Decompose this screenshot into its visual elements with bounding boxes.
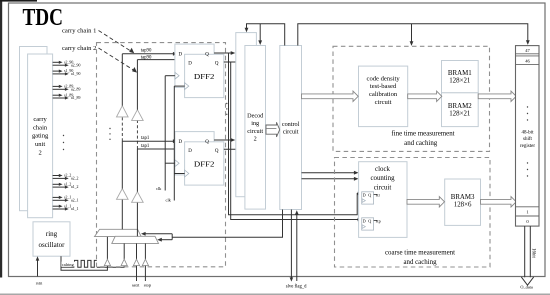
svg-text:D: D bbox=[179, 53, 183, 58]
BRAM1 bbox=[442, 61, 479, 93]
svg-text:satrt: satrt bbox=[132, 282, 140, 287]
svg-text:unit: unit bbox=[35, 141, 45, 148]
svg-text:test-based: test-based bbox=[370, 83, 397, 90]
svg-text:Q: Q bbox=[368, 192, 371, 197]
svg-text:stop: stop bbox=[144, 282, 152, 287]
svg-text:counting: counting bbox=[370, 175, 395, 182]
svg-text:ring: ring bbox=[46, 230, 58, 238]
wire U2 back Q to Decoding bbox=[214, 139, 231, 141]
clk pin U1 front bbox=[185, 83, 189, 90]
svg-text:a1_1: a1_1 bbox=[71, 207, 79, 211]
carry chain gating unit 2 front box bbox=[28, 54, 53, 218]
signal a2_1 bbox=[53, 199, 66, 201]
svg-text:clk: clk bbox=[166, 197, 172, 202]
wire tap1 chain2 to DFF2 bbox=[137, 148, 183, 150]
signal a2_89 bbox=[53, 88, 66, 90]
DFF str bbox=[362, 192, 374, 204]
svg-text:D: D bbox=[188, 61, 192, 66]
svg-text:circuit: circuit bbox=[283, 129, 299, 136]
signal s1_1 bbox=[53, 205, 60, 207]
dots chain repetition bbox=[109, 128, 110, 129]
svg-text:TDC: TDC bbox=[23, 5, 64, 31]
48-bit shift register bbox=[516, 46, 540, 227]
DFF2 U2 front box bbox=[185, 142, 224, 185]
svg-text:circuit: circuit bbox=[247, 128, 263, 135]
BRAM3 bbox=[445, 179, 481, 225]
svg-text:chain: chain bbox=[33, 124, 48, 131]
bus arrow control to code density bbox=[302, 91, 359, 101]
code density test-based calibration circuit bbox=[359, 66, 408, 127]
svg-text:tap1: tap1 bbox=[141, 136, 150, 141]
dashed box fine time measurement and caching bbox=[333, 46, 490, 151]
svg-text:and caching: and caching bbox=[404, 140, 438, 147]
mux M2 (front trapezoid) bbox=[112, 236, 159, 243]
svg-text:Q: Q bbox=[368, 218, 371, 223]
svg-text:ing: ing bbox=[251, 120, 259, 127]
image bottom edge line bbox=[0, 293, 550, 295]
svg-text:a1_89: a1_89 bbox=[71, 96, 81, 100]
svg-text:BRAM3: BRAM3 bbox=[451, 194, 475, 201]
buffer B2b on chain 2 bbox=[132, 192, 144, 203]
clk pin U2 back bbox=[175, 160, 179, 167]
clk pin U2 front bbox=[185, 170, 189, 177]
Decoding circuit 2 back box bbox=[236, 33, 257, 197]
signal a1_1 bbox=[53, 208, 66, 210]
dots between signal groups bbox=[63, 135, 64, 136]
DFF2 U1 back box bbox=[175, 44, 214, 87]
mux input cal 1 bbox=[106, 237, 108, 259]
svg-text:a2_2: a2_2 bbox=[71, 177, 79, 181]
wire control to clock counting 2 bbox=[302, 178, 355, 180]
image left edge band bbox=[0, 0, 2, 278]
svg-text:Decod: Decod bbox=[247, 112, 264, 119]
svg-text:carry chain 2: carry chain 2 bbox=[62, 45, 96, 52]
dashed box carry chain 2 bbox=[97, 43, 226, 267]
svg-text:Q: Q bbox=[215, 61, 219, 66]
svg-text:a2_89: a2_89 bbox=[71, 87, 81, 91]
Decoding circuit 2 front box bbox=[245, 46, 266, 210]
callout arrow carry chain 1 bbox=[99, 31, 132, 52]
signal s2_89 bbox=[53, 85, 60, 87]
svg-text:and caching: and caching bbox=[403, 259, 437, 266]
carry chain gating unit 2 back box bbox=[20, 47, 48, 211]
signal a2_2 bbox=[53, 177, 66, 179]
clk net 2 bbox=[174, 85, 184, 87]
svg-text:clk: clk bbox=[156, 186, 162, 191]
svg-text:BRAM1: BRAM1 bbox=[448, 70, 472, 77]
clk pin U1 back bbox=[175, 72, 179, 79]
signal s2_1 bbox=[53, 196, 60, 198]
svg-text:D: D bbox=[188, 149, 192, 154]
output bus 16bit bbox=[524, 226, 526, 277]
svg-text:D: D bbox=[363, 218, 366, 223]
svg-text:DFF2: DFF2 bbox=[194, 72, 215, 81]
bus arrow Decoding to control bbox=[266, 122, 280, 137]
mux input cal 2 bbox=[123, 244, 125, 260]
signal a1_89 bbox=[53, 97, 66, 99]
carry chain 2 vertical bbox=[136, 202, 138, 236]
wire U1 back Q to Decoding bbox=[214, 52, 231, 54]
mux M1 (back trapezoid) bbox=[95, 229, 142, 236]
svg-text:a2_1: a2_1 bbox=[71, 198, 79, 202]
ring oscillator bbox=[33, 222, 70, 256]
svg-text:128×21: 128×21 bbox=[449, 78, 471, 85]
svg-text:register: register bbox=[520, 144, 535, 149]
wire control to Decoding tops bbox=[247, 24, 285, 46]
callout arrow carry chain 2 bbox=[99, 48, 135, 71]
wire wave to mux2 input bbox=[97, 266, 124, 268]
svg-text:code density: code density bbox=[367, 75, 401, 82]
DFF2 U1 front box bbox=[185, 54, 224, 97]
dots shift register bottom bbox=[527, 162, 528, 163]
DFF2 U2 back box bbox=[175, 132, 214, 175]
wire control to clock counting 1 bbox=[302, 172, 355, 174]
wire U2 front Q to Decoding bbox=[224, 148, 241, 150]
wire calring wave branch to mux2 bbox=[61, 266, 74, 268]
svg-text:2: 2 bbox=[38, 150, 41, 157]
svg-text:47: 47 bbox=[525, 48, 530, 53]
svg-text:48-bit: 48-bit bbox=[522, 131, 535, 136]
svg-text:D: D bbox=[363, 192, 366, 197]
bus arrow clock counting to BRAM3 bbox=[407, 197, 445, 207]
svg-text:stp: stp bbox=[376, 218, 381, 223]
signal a1_2 bbox=[53, 186, 66, 188]
dots shift register top bbox=[527, 106, 528, 107]
mux input stop bbox=[144, 244, 146, 260]
calring waveform bbox=[75, 260, 97, 267]
rstn input bbox=[37, 260, 39, 277]
clk net 1 bbox=[165, 75, 175, 77]
svg-text:coarse time measurement: coarse time measurement bbox=[385, 250, 455, 257]
signal a1_90 bbox=[53, 73, 66, 75]
control circuit box bbox=[280, 46, 302, 210]
svg-text:circuit: circuit bbox=[375, 99, 392, 106]
svg-text:slve flag_d: slve flag_d bbox=[286, 285, 307, 290]
svg-text:D: D bbox=[179, 140, 183, 145]
signal s2_90 bbox=[53, 61, 60, 63]
image top edge segment bbox=[0, 0, 37, 2]
wire calring to mux1 bbox=[61, 256, 107, 270]
wire flag_d input bbox=[296, 215, 298, 281]
svg-text:a2_90: a2_90 bbox=[71, 63, 81, 67]
dots between dashed box and Decoding bbox=[226, 103, 227, 104]
buffer B1a on chain 1 bbox=[117, 106, 129, 117]
svg-text:a1_2: a1_2 bbox=[71, 185, 79, 189]
svg-text:128×21: 128×21 bbox=[449, 111, 471, 118]
wire tap90 chain2 to DFF2 bbox=[137, 59, 183, 61]
wire tap1 chain1 to DFF2 bbox=[122, 140, 173, 142]
svg-text:tap1: tap1 bbox=[141, 144, 150, 149]
bus arrow BRAM to shift register bbox=[478, 91, 516, 101]
BRAM2 bbox=[442, 93, 479, 127]
svg-text:a1_90: a1_90 bbox=[71, 72, 81, 76]
svg-text:clock: clock bbox=[375, 166, 390, 173]
svg-text:Q: Q bbox=[205, 140, 209, 145]
svg-text:Q: Q bbox=[205, 53, 209, 58]
wire branch to str DFF bbox=[229, 53, 359, 215]
signal s1_90 bbox=[53, 70, 60, 72]
svg-text:46: 46 bbox=[525, 59, 530, 64]
svg-text:str: str bbox=[376, 192, 381, 197]
DFF stp bbox=[362, 218, 374, 230]
dashed box coarse time measurement and caching bbox=[335, 158, 491, 268]
svg-text:carry chain 1: carry chain 1 bbox=[62, 28, 96, 35]
svg-text:circuit: circuit bbox=[374, 184, 392, 191]
svg-text:Q: Q bbox=[215, 149, 219, 154]
mux input start bbox=[136, 244, 138, 260]
wire control to mux selects bbox=[172, 210, 282, 238]
wire U1 front Q to Decoding bbox=[224, 61, 241, 63]
svg-text:128×6: 128×6 bbox=[454, 202, 472, 209]
svg-text:carry: carry bbox=[33, 116, 47, 123]
svg-text:control: control bbox=[282, 121, 300, 128]
signal s1_89 bbox=[53, 94, 60, 96]
buffer B2a on chain 2 bbox=[132, 110, 144, 121]
svg-text:rstn: rstn bbox=[36, 280, 43, 285]
svg-text:DFF2: DFF2 bbox=[194, 159, 215, 168]
wire drop to fine measurement box bbox=[411, 24, 413, 42]
svg-text:tap90: tap90 bbox=[141, 49, 152, 54]
signal s1_2 bbox=[53, 183, 60, 185]
label calring bbox=[61, 262, 75, 267]
svg-text:fine time measurement: fine time measurement bbox=[391, 131, 454, 138]
svg-text:gating: gating bbox=[32, 133, 49, 140]
svg-text:tap90: tap90 bbox=[141, 55, 152, 60]
wire branch to stp DFF bbox=[231, 62, 359, 220]
bus arrow code density to BRAM bbox=[408, 91, 442, 101]
svg-text:oscillator: oscillator bbox=[38, 241, 65, 249]
signal s2_2 bbox=[53, 175, 60, 177]
svg-text:O_data: O_data bbox=[520, 284, 533, 289]
svg-text:2: 2 bbox=[254, 136, 257, 143]
wire tap90 chain1 to DFF2 bbox=[122, 53, 173, 55]
svg-text:16bit: 16bit bbox=[530, 248, 535, 258]
wire control to fine box and shift register bbox=[298, 24, 528, 46]
signal a2_90 bbox=[53, 64, 66, 66]
carry chain 1 vertical bbox=[121, 199, 123, 229]
clock counting circuit box bbox=[359, 162, 407, 238]
svg-text:shift: shift bbox=[523, 137, 533, 142]
bus arrow BRAM3 to shift register bbox=[481, 197, 517, 207]
buffer B1b on chain 1 bbox=[117, 189, 129, 200]
svg-text:BRAM2: BRAM2 bbox=[448, 103, 472, 110]
svg-text:calibration: calibration bbox=[369, 91, 398, 98]
wire slve output bbox=[290, 210, 292, 279]
hollow arrowhead O_data bbox=[521, 277, 533, 285]
svg-text:calring: calring bbox=[62, 262, 75, 267]
